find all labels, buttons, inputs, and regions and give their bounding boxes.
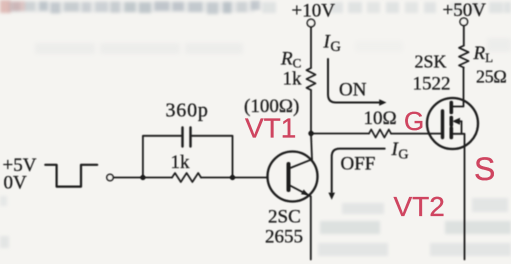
svg-text:360p: 360p (166, 100, 209, 122)
svg-text:25Ω: 25Ω (476, 67, 506, 87)
svg-text:10Ω: 10Ω (364, 108, 397, 129)
svg-text:+50V: +50V (443, 0, 487, 21)
svg-text:VT2: VT2 (394, 191, 445, 222)
svg-text:2SC: 2SC (268, 207, 301, 228)
svg-text:ON: ON (339, 80, 367, 101)
svg-text:1k: 1k (171, 152, 191, 173)
svg-text:1522: 1522 (413, 74, 451, 95)
svg-text:G: G (404, 106, 424, 136)
svg-text:2655: 2655 (265, 227, 303, 248)
svg-text:+10V: +10V (292, 1, 336, 22)
svg-text:0V: 0V (4, 173, 28, 194)
svg-text:S: S (474, 151, 495, 187)
svg-text:OFF: OFF (341, 154, 376, 175)
svg-text:2SK: 2SK (415, 52, 447, 72)
svg-text:VT1: VT1 (245, 113, 296, 144)
svg-text:1k: 1k (283, 69, 303, 90)
